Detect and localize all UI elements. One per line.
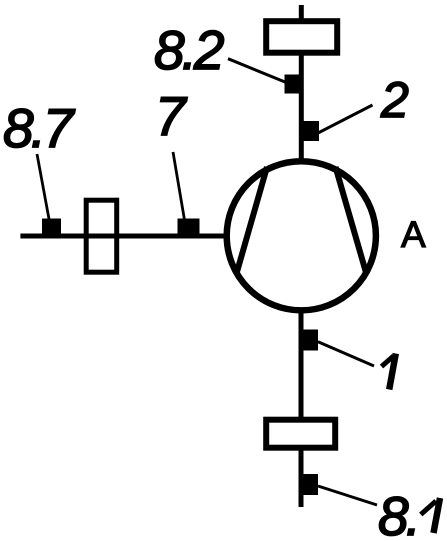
svg-text:8.: 8. [378,485,418,541]
svg-text:A: A [401,214,426,255]
node 1 [299,330,318,351]
label 1 [382,354,396,390]
component box bottom (muffler) [266,420,335,448]
wire top vertical [299,5,304,162]
leader 8.7 [37,154,49,219]
svg-text:8.7: 8.7 [3,97,76,159]
leader 7 [173,152,185,220]
wire bottom vertical [299,310,304,507]
compressor left vane [237,167,268,274]
svg-text:2: 2 [380,72,409,128]
leader 1 [318,342,374,366]
svg-text:8.2: 8.2 [154,19,224,81]
compressor right vane [336,167,367,273]
node 8.1 [299,474,318,495]
wire left horizontal [20,234,227,239]
component box top (muffler) [266,21,337,53]
leader 2 [318,105,373,133]
node 2 [299,121,319,141]
leader 8.2 [228,59,285,82]
compressor A circle [227,161,376,310]
node 7 [178,219,200,239]
component box left (valve) [86,200,117,272]
leader 8.1 [318,486,377,505]
node 8.2 [285,75,304,94]
svg-text:7: 7 [155,85,188,147]
node 8.7 [42,219,61,239]
